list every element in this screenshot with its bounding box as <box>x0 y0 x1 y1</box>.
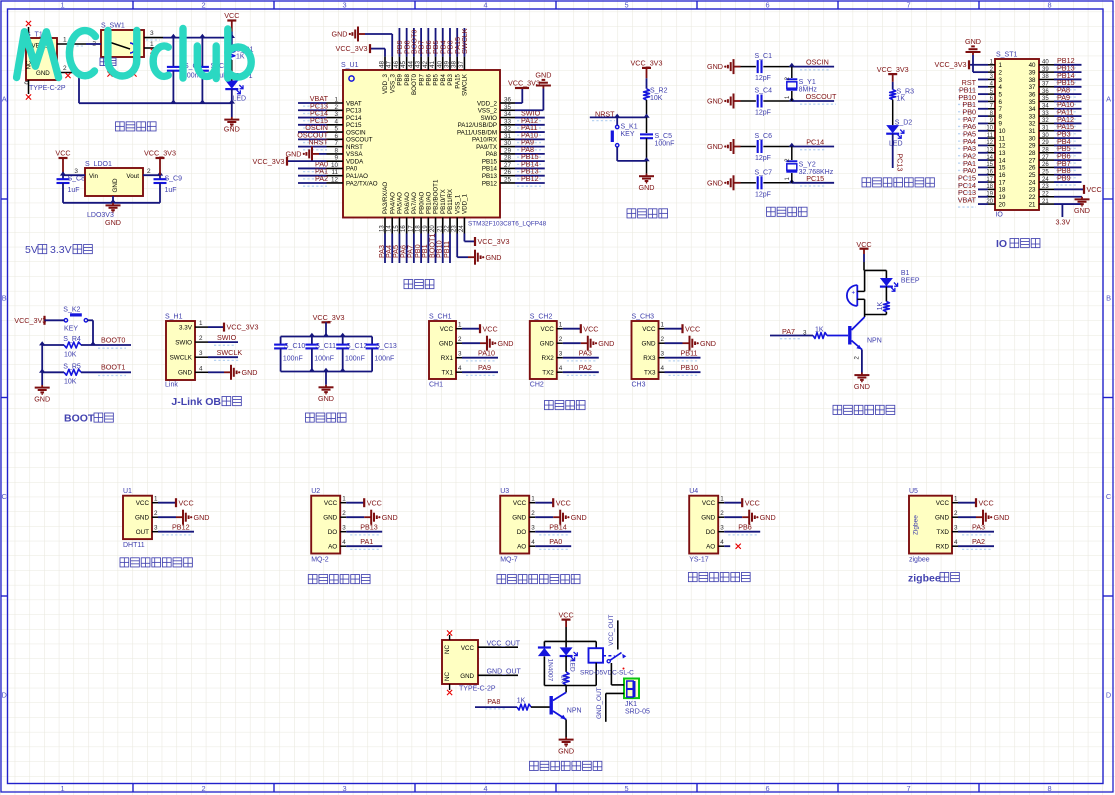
svg-text:2: 2 <box>63 65 67 72</box>
svg-text:1: 1 <box>999 62 1003 69</box>
svg-text:PA2/TX/AO: PA2/TX/AO <box>346 180 378 187</box>
net 3.3V ST1 pin21 <box>1056 204 1071 226</box>
svg-text:PC15: PC15 <box>346 122 362 129</box>
MCUclub logo <box>17 29 252 79</box>
svg-text:GND: GND <box>639 183 655 192</box>
svg-text:22: 22 <box>1042 191 1049 197</box>
svg-text:20: 20 <box>986 199 993 205</box>
JK1 upper contact wire <box>611 663 624 685</box>
U1 left pin wires <box>298 103 343 183</box>
svg-text:1: 1 <box>60 0 64 9</box>
svg-text:PB11: PB11 <box>442 241 451 258</box>
net label PA3 at U5 <box>962 523 992 535</box>
svg-text:S_SW1: S_SW1 <box>101 23 125 30</box>
svg-text:S_H1: S_H1 <box>165 314 183 321</box>
svg-text:3.3V: 3.3V <box>179 325 193 332</box>
svg-text:YS-17: YS-17 <box>689 557 709 564</box>
svg-text:PB14: PB14 <box>549 523 567 532</box>
svg-text:4: 4 <box>720 539 724 546</box>
svg-text:CH2: CH2 <box>530 382 544 389</box>
svg-text:Zigbee: Zigbee <box>913 515 920 535</box>
svg-text:B: B <box>1106 294 1111 303</box>
ground ST1 pin22 <box>1074 197 1090 216</box>
svg-text:A: A <box>2 95 7 104</box>
svg-text:OSCOUT: OSCOUT <box>346 137 373 144</box>
svg-text:10K: 10K <box>64 379 77 386</box>
svg-text:13: 13 <box>986 147 993 153</box>
svg-text:24: 24 <box>1042 177 1049 183</box>
svg-text:38: 38 <box>1029 77 1036 84</box>
LDO output wire <box>143 171 163 175</box>
svg-text:PA6/AO: PA6/AO <box>404 192 411 214</box>
relay coil SRD-05VDC-SL-C <box>580 641 634 685</box>
svg-text:1K: 1K <box>560 675 567 684</box>
svg-text:B: B <box>2 294 7 303</box>
svg-text:16: 16 <box>986 169 993 175</box>
svg-text:Link: Link <box>165 382 178 389</box>
svg-text:100nF: 100nF <box>345 355 365 362</box>
svg-text:BOOT0: BOOT0 <box>411 73 418 95</box>
svg-text:1uF: 1uF <box>165 187 177 194</box>
svg-text:1K: 1K <box>897 96 906 103</box>
svg-text:28: 28 <box>1042 147 1049 153</box>
svg-text:NRST: NRST <box>346 144 363 151</box>
power port VCC CH2 <box>581 324 599 333</box>
resistor 1K relay base <box>475 697 550 710</box>
ST1 left pin wires <box>978 65 995 204</box>
resistor 1K buzzer branch <box>877 301 889 314</box>
connector H1 J-Link <box>165 314 195 389</box>
svg-text:3.3V: 3.3V <box>50 244 72 256</box>
net label PA2 at U5 <box>962 537 992 549</box>
filter top rail wire <box>281 333 373 337</box>
svg-text:38: 38 <box>1042 74 1049 80</box>
net label NRST <box>592 109 615 120</box>
svg-text:VCC_3V3: VCC_3V3 <box>336 44 368 53</box>
svg-text:S_LDO1: S_LDO1 <box>85 161 112 168</box>
svg-text:PB12: PB12 <box>482 180 498 187</box>
svg-text:3: 3 <box>458 351 462 358</box>
ST1 right net labels <box>1056 56 1076 185</box>
svg-text:GND: GND <box>935 515 949 522</box>
capacitor C8 1uF <box>57 175 86 203</box>
svg-text:S_K1: S_K1 <box>621 124 638 131</box>
ground U3 <box>553 510 586 525</box>
SW1 pin 3 wire to VCC rail <box>144 38 232 40</box>
switch SW1 <box>92 23 154 58</box>
svg-text:GND: GND <box>486 253 502 262</box>
svg-text:VCC: VCC <box>324 500 338 507</box>
svg-text:Vout: Vout <box>126 173 139 180</box>
svg-text:2: 2 <box>201 784 205 793</box>
net label SWCLK at H1 <box>208 348 242 360</box>
svg-text:S_C7: S_C7 <box>755 169 773 176</box>
LED relay <box>560 641 578 672</box>
svg-text:2: 2 <box>531 510 535 517</box>
svg-text:DHT11: DHT11 <box>123 542 145 549</box>
svg-text:VCC: VCC <box>642 326 656 333</box>
svg-text:GND: GND <box>994 513 1010 522</box>
svg-text:LED: LED <box>889 140 903 147</box>
svg-text:2: 2 <box>458 336 462 343</box>
svg-text:35: 35 <box>1029 99 1036 106</box>
svg-text:27: 27 <box>1042 155 1049 161</box>
svg-text:S_C13: S_C13 <box>375 343 397 350</box>
svg-text:4: 4 <box>483 0 487 9</box>
svg-text:26: 26 <box>1042 162 1049 168</box>
svg-text:2: 2 <box>954 510 958 517</box>
svg-text:PB10/TX: PB10/TX <box>440 189 447 214</box>
power port VCC_3V3 at U1 pin 24 bottom <box>464 234 509 247</box>
svg-text:VCC: VCC <box>224 11 239 20</box>
svg-text:PB12: PB12 <box>521 174 539 183</box>
svg-text:D: D <box>1106 691 1111 700</box>
transistor NPN relay <box>551 686 581 738</box>
svg-text:3: 3 <box>531 525 535 532</box>
svg-text:PB11: PB11 <box>681 349 698 358</box>
svg-text:AO: AO <box>517 544 526 551</box>
svg-text:U4: U4 <box>689 488 698 495</box>
svg-text:13: 13 <box>999 150 1006 157</box>
svg-text:VCC: VCC <box>483 324 498 333</box>
svg-text:VDDA: VDDA <box>346 158 364 165</box>
transistor Q NPN buzzer <box>850 315 882 373</box>
svg-text:32: 32 <box>1042 118 1049 124</box>
svg-text:26: 26 <box>1029 165 1036 172</box>
svg-text:3: 3 <box>661 351 665 358</box>
svg-text:23: 23 <box>1029 187 1036 194</box>
power port VCC_3V3 filter <box>313 313 345 337</box>
ground boot <box>34 385 50 404</box>
svg-text:SWCLK: SWCLK <box>170 355 193 362</box>
svg-text:+: + <box>852 291 856 297</box>
svg-text:4: 4 <box>999 84 1003 91</box>
svg-text:PA15: PA15 <box>454 73 461 88</box>
resistor R2 10K <box>644 88 668 118</box>
ground below LDO <box>105 203 121 227</box>
U1 pin numbers <box>331 60 512 232</box>
svg-text:PB6: PB6 <box>738 523 752 532</box>
svg-text:PB8: PB8 <box>404 73 411 85</box>
svg-text:VCC: VCC <box>1087 185 1102 194</box>
title 串口电路 <box>545 401 586 410</box>
svg-text:S_R2: S_R2 <box>650 88 668 95</box>
svg-text:PC13: PC13 <box>346 108 362 115</box>
crystal Y1 8MHz <box>785 67 817 101</box>
svg-text:C: C <box>1106 492 1112 501</box>
relay switch contact <box>603 653 626 670</box>
connector TYPE-C-2P relay <box>442 640 496 693</box>
svg-text:25: 25 <box>1042 169 1049 175</box>
svg-text:34: 34 <box>1042 103 1049 109</box>
connector ST1 header body <box>995 52 1039 219</box>
relay TYPE-C no-connect marks <box>447 630 452 695</box>
net label PC13 vertical <box>895 153 904 171</box>
svg-text:PB2/BOOT1: PB2/BOOT1 <box>433 179 440 214</box>
svg-text:NPN: NPN <box>567 708 582 715</box>
svg-text:4: 4 <box>531 539 535 546</box>
power port VCC U4 <box>742 498 760 507</box>
net label PA2 <box>567 363 597 375</box>
ground at U1 pin 47 top <box>332 27 393 57</box>
svg-text:12pF: 12pF <box>755 110 771 117</box>
svg-text:PB15: PB15 <box>482 158 498 165</box>
svg-text:MQ-7: MQ-7 <box>500 557 518 564</box>
U1 top net labels <box>395 28 469 54</box>
svg-text:VCC_3V3: VCC_3V3 <box>227 323 259 332</box>
svg-text:10K: 10K <box>650 95 663 102</box>
svg-text:OSCIN: OSCIN <box>806 58 829 67</box>
net label OSCIN <box>800 58 830 70</box>
svg-text:2: 2 <box>720 510 724 517</box>
power port VCC_3V3 reset <box>631 59 663 89</box>
svg-text:GND: GND <box>439 341 453 348</box>
net label PA3 <box>567 349 597 361</box>
svg-text:STM32F103C8T6_LQFP48: STM32F103C8T6_LQFP48 <box>468 221 547 228</box>
svg-text:U2: U2 <box>311 488 320 495</box>
svg-text:GND_OUT: GND_OUT <box>596 687 603 719</box>
svg-text:VCC: VCC <box>461 645 475 652</box>
svg-text:S_K2: S_K2 <box>63 307 80 314</box>
U1 right net labels <box>517 109 541 187</box>
svg-text:6: 6 <box>765 0 769 9</box>
svg-text:GND: GND <box>112 178 119 192</box>
module U3 MQ-7 <box>500 488 529 564</box>
resistor R4 10K <box>42 336 131 359</box>
net label PC14 <box>800 138 826 150</box>
U1 left net labels <box>297 94 328 186</box>
ground filter <box>318 372 334 404</box>
svg-text:5V: 5V <box>25 244 38 256</box>
connector CH2 serial <box>530 314 557 389</box>
svg-text:VCC_OUT: VCC_OUT <box>487 641 521 648</box>
svg-text:5: 5 <box>999 91 1003 98</box>
svg-text:GND: GND <box>1074 206 1090 215</box>
ground U5 <box>976 510 1009 525</box>
svg-text:VSS_2: VSS_2 <box>478 108 498 115</box>
svg-text:DO: DO <box>328 529 338 536</box>
svg-text:S_C5: S_C5 <box>655 133 673 140</box>
U5 pin wires <box>952 496 994 547</box>
svg-text:PC14: PC14 <box>806 138 824 147</box>
svg-text:2: 2 <box>154 510 158 517</box>
filter bottom rail wire <box>281 368 373 372</box>
ground CH3 <box>683 336 716 351</box>
svg-text:LED: LED <box>233 96 247 103</box>
svg-text:IO: IO <box>996 238 1007 250</box>
capacitor C12 100nF <box>336 333 367 372</box>
svg-text:4: 4 <box>458 365 462 372</box>
svg-text:34: 34 <box>1029 106 1036 113</box>
capacitor C7 12pF row with PC15 <box>707 169 834 198</box>
buzzer branch bottom wire <box>865 314 887 316</box>
svg-text:TYPE-C-2P: TYPE-C-2P <box>459 686 496 693</box>
svg-text:PA9: PA9 <box>478 363 491 372</box>
net VCC_OUT vertical wire <box>608 615 618 650</box>
power port VCC U3 <box>553 498 571 507</box>
svg-text:18: 18 <box>999 187 1006 194</box>
svg-text:37: 37 <box>1042 81 1049 87</box>
svg-text:VSSA: VSSA <box>346 151 363 158</box>
title 滤波电路 <box>306 413 347 422</box>
title 晶振电路 <box>767 207 808 216</box>
capacitor C11 100nF <box>305 333 336 372</box>
ground buzzer <box>854 373 870 392</box>
svg-text:GND: GND <box>700 339 716 348</box>
U3 pin wires <box>529 496 571 547</box>
svg-text:2: 2 <box>147 168 151 175</box>
svg-text:24: 24 <box>1029 179 1036 186</box>
ST1 left pin numbers <box>986 60 993 205</box>
svg-text:TX3: TX3 <box>644 370 656 377</box>
svg-text:PA10: PA10 <box>478 349 495 358</box>
ground at H1 pin4 <box>208 365 257 380</box>
svg-text:PA1: PA1 <box>360 537 373 546</box>
svg-text:A: A <box>1106 95 1111 104</box>
svg-text:VCC: VCC <box>55 149 70 158</box>
svg-text:3: 3 <box>342 784 346 793</box>
svg-text:PB0/AO: PB0/AO <box>418 191 425 214</box>
junction at R1 column <box>229 34 235 38</box>
svg-text:3.3V: 3.3V <box>1056 218 1071 227</box>
svg-text:VDD_2: VDD_2 <box>477 100 498 107</box>
svg-text:1uF: 1uF <box>68 187 80 194</box>
svg-text:8: 8 <box>1047 0 1051 9</box>
svg-text:S_C11: S_C11 <box>315 343 336 350</box>
svg-text:27: 27 <box>1029 157 1036 164</box>
svg-text:GND: GND <box>36 70 50 77</box>
svg-text:PB13: PB13 <box>482 173 498 180</box>
T1 pin 1 wire <box>57 37 86 47</box>
svg-text:SWCLK: SWCLK <box>217 348 243 357</box>
svg-text:8: 8 <box>999 113 1003 120</box>
svg-text:GND: GND <box>571 513 587 522</box>
svg-text:10K: 10K <box>64 352 77 359</box>
net label PA7 base <box>780 327 807 339</box>
svg-text:S_C9: S_C9 <box>165 176 183 183</box>
svg-text:S_CH2: S_CH2 <box>530 314 553 321</box>
svg-text:36: 36 <box>1029 91 1036 98</box>
svg-text:36: 36 <box>1042 89 1049 95</box>
svg-text:31: 31 <box>1029 128 1036 135</box>
svg-text:VSS_1: VSS_1 <box>454 194 461 214</box>
svg-text:S_CH1: S_CH1 <box>429 314 452 321</box>
svg-text:CH3: CH3 <box>632 382 646 389</box>
no-connect mark U4 pin4 <box>736 544 741 549</box>
net label PA1 at U2 <box>350 537 380 549</box>
svg-text:VCC: VCC <box>856 240 871 249</box>
svg-text:PA5/AO: PA5/AO <box>397 192 404 214</box>
svg-text:21: 21 <box>1042 199 1049 205</box>
svg-text:GND: GND <box>224 125 240 134</box>
svg-text:PA10/RX: PA10/RX <box>472 137 497 144</box>
svg-text:1: 1 <box>60 784 64 793</box>
svg-text:1: 1 <box>342 496 346 503</box>
svg-text:23: 23 <box>1042 184 1049 190</box>
svg-text:PB4: PB4 <box>440 73 447 85</box>
LDO ground rail wire <box>63 196 160 203</box>
svg-text:PA8: PA8 <box>487 697 500 706</box>
svg-text:PB9: PB9 <box>1057 173 1071 182</box>
svg-text:GND: GND <box>332 30 348 39</box>
svg-text:PB10: PB10 <box>681 363 699 372</box>
ground at U1 pin 8 VSSA <box>286 146 327 161</box>
svg-text:21: 21 <box>1029 201 1036 208</box>
svg-text:PB12: PB12 <box>172 523 190 532</box>
LED D2 <box>886 120 912 169</box>
svg-text:VDD_1: VDD_1 <box>462 193 469 214</box>
svg-text:GND: GND <box>760 513 776 522</box>
svg-text:PB6: PB6 <box>426 73 433 85</box>
K2 to BOOT0 wire <box>88 320 93 345</box>
svg-text:SRD-05: SRD-05 <box>625 709 650 716</box>
svg-text:100nF: 100nF <box>283 355 303 362</box>
U1 pin names <box>346 73 498 214</box>
svg-text:PB14: PB14 <box>482 166 498 173</box>
crystal Y2 32.768KHz <box>785 147 834 183</box>
junction at C2 column <box>170 34 176 38</box>
svg-text:40: 40 <box>1042 60 1049 66</box>
svg-text:VCC_3V3: VCC_3V3 <box>935 60 967 69</box>
svg-text:PB5: PB5 <box>433 73 440 85</box>
ground U4 <box>742 510 775 525</box>
capacitor C1 12pF row with OSCIN <box>707 53 834 82</box>
svg-text:U3: U3 <box>500 488 509 495</box>
svg-text:PA7/AO: PA7/AO <box>411 192 418 214</box>
svg-text:AO: AO <box>706 544 715 551</box>
svg-text:30: 30 <box>1029 135 1036 142</box>
SW1 bottom stubs <box>65 57 136 78</box>
svg-text:DO: DO <box>517 529 527 536</box>
net label PB13 at U2 <box>350 523 380 535</box>
connector CH1 serial <box>429 314 456 389</box>
svg-text:NPN: NPN <box>867 338 882 345</box>
svg-text:30: 30 <box>1042 133 1049 139</box>
ground at U1 pin 35 <box>515 71 551 111</box>
title 温湿度检测模块 <box>120 558 192 567</box>
title 烟雾检测模块 <box>308 575 370 584</box>
ground ST1 pin2 top <box>965 37 981 72</box>
svg-text:39: 39 <box>1029 69 1036 76</box>
svg-text:GND: GND <box>701 515 715 522</box>
connector CH3 serial <box>632 314 659 389</box>
relay bottom rail wire <box>544 685 596 687</box>
capacitor C13 100nF <box>366 337 397 372</box>
net label PB11 <box>669 349 699 361</box>
svg-text:1: 1 <box>458 322 462 329</box>
power port VCC ST1 pin23 <box>1082 185 1102 194</box>
title 主芯片 <box>404 280 434 289</box>
ground U2 <box>364 510 397 525</box>
svg-text:VCC_3V3: VCC_3V3 <box>877 65 909 74</box>
power port VCC_3V3 at U1 pin 9 VDDA <box>253 157 327 166</box>
svg-text:29: 29 <box>1029 143 1036 150</box>
svg-text:MQ-2: MQ-2 <box>311 557 329 564</box>
svg-text:11: 11 <box>999 135 1006 142</box>
svg-text:BOOT1: BOOT1 <box>101 363 125 372</box>
svg-text:S_CH3: S_CH3 <box>632 314 655 321</box>
svg-text:GND_OUT: GND_OUT <box>487 669 522 676</box>
svg-text:1K: 1K <box>517 697 526 704</box>
SW1 label 开关 <box>100 58 116 66</box>
U1 bottom pin wires <box>385 218 464 264</box>
svg-text:VSS_3: VSS_3 <box>389 73 396 93</box>
net label PA0 at U3 <box>539 537 569 549</box>
svg-text:PA3: PA3 <box>972 523 985 532</box>
net label BOOT0 <box>98 335 126 348</box>
svg-text:VCC: VCC <box>541 326 555 333</box>
CH2 pin wires <box>557 322 599 373</box>
